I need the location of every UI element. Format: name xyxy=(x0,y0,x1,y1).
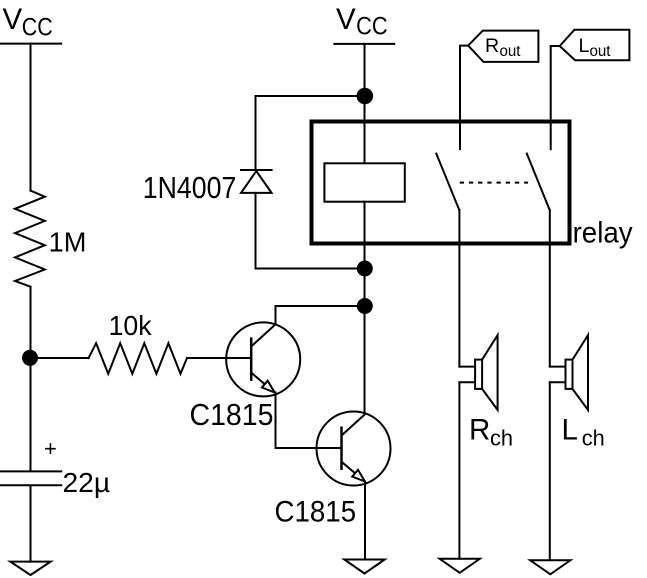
relay K1 coil rectangle xyxy=(324,163,404,201)
svg-text:relay: relay xyxy=(573,217,633,250)
resistor R2 zigzag 10k xyxy=(89,343,187,374)
relay switch S2 blade xyxy=(527,154,550,210)
node A1 junction dot (base divider node) xyxy=(22,350,38,366)
ground (under Q2) xyxy=(344,560,384,574)
transistor Q2 base bar xyxy=(340,428,343,469)
relay switch linkage dashed line xyxy=(460,182,528,184)
input tag Rout outline xyxy=(468,31,538,62)
wire relay coil bottom to Q2 collector xyxy=(364,202,366,414)
wire Q1 emitter down and right to Q2 base xyxy=(276,392,341,448)
svg-text:10k: 10k xyxy=(109,309,153,341)
speaker Rch top stub xyxy=(459,366,475,368)
wire Q2 emitter to ground xyxy=(364,482,366,560)
svg-text:out: out xyxy=(500,43,522,60)
power VCC (left) rail bar xyxy=(1,43,61,45)
wire speaker Lch to ground xyxy=(549,382,551,560)
svg-text:1M: 1M xyxy=(49,226,87,258)
transistor Q2 collector diagonal xyxy=(342,414,365,435)
node B3 junction dot (collector tie) xyxy=(357,298,373,314)
transistor Q1 circle xyxy=(226,322,300,396)
input tag Rout text xyxy=(485,35,521,60)
power VCC (middle) label xyxy=(336,3,388,41)
svg-text:R: R xyxy=(485,35,499,57)
capacitor C1 bottom plate xyxy=(1,484,62,486)
input tag Lout outline xyxy=(560,30,630,60)
resistor R1 zigzag xyxy=(15,191,45,287)
relay K1 outer box xyxy=(312,122,570,244)
wire Lout tag to switch xyxy=(551,46,560,149)
transistor Q2 emitter diagonal xyxy=(342,462,359,477)
transistor Q1 emitter arrowhead xyxy=(262,381,275,393)
speaker Lch top stub xyxy=(550,366,566,368)
capacitor C1 polarity plus sign xyxy=(44,436,57,461)
wire VCC-left to R1 xyxy=(30,44,32,191)
ground (under Rch) xyxy=(440,559,480,573)
wire switch S1 to speaker Rch xyxy=(458,210,460,367)
transistor Q2 emitter arrowhead xyxy=(352,470,365,482)
ground (under Lch) xyxy=(530,560,570,574)
diode D1 triangle xyxy=(241,171,272,193)
power VCC (left) label xyxy=(3,3,53,42)
svg-text:L: L xyxy=(562,414,578,447)
capacitor C1 top plate xyxy=(1,470,62,472)
svg-text:+: + xyxy=(44,436,57,461)
svg-text:CC: CC xyxy=(356,13,388,41)
label Lch xyxy=(562,414,605,451)
wire node A1 to resistor R2 xyxy=(31,357,89,359)
speaker Rch horn xyxy=(482,335,498,410)
transistor Q1 emitter diagonal xyxy=(252,373,269,388)
transistor Q2 circle xyxy=(317,412,391,486)
wire speaker Rch to ground xyxy=(458,382,460,559)
node B1 junction dot (VCC / diode branch) xyxy=(357,88,374,105)
svg-text:C1815: C1815 xyxy=(275,496,357,529)
input tag Lout text xyxy=(579,35,612,60)
label Rch xyxy=(469,414,513,451)
speaker Rch driver rect xyxy=(475,360,482,389)
wire C1 to ground xyxy=(30,486,32,562)
svg-text:V: V xyxy=(336,3,356,36)
svg-text:CC: CC xyxy=(22,13,53,41)
node B2 junction dot (coil- / diode anode) xyxy=(357,261,373,277)
power VCC (middle) rail bar xyxy=(334,43,394,45)
svg-text:1N4007: 1N4007 xyxy=(143,170,237,205)
svg-text:ch: ch xyxy=(490,426,513,451)
speaker Lch horn xyxy=(573,335,589,410)
transistor Q1 base bar xyxy=(250,339,253,380)
speaker Lch driver rect xyxy=(566,360,573,389)
relay switch S1 blade xyxy=(436,154,459,210)
svg-text:C1815: C1815 xyxy=(190,397,274,432)
wire VCC-middle down to relay coil xyxy=(364,44,366,163)
svg-text:R: R xyxy=(469,414,490,447)
wire node B1 to diode D1 cathode xyxy=(256,96,365,170)
svg-text:ch: ch xyxy=(582,426,605,451)
wire R1 to node A1 and to C1 xyxy=(30,287,32,471)
transistor Q1 collector diagonal xyxy=(252,324,275,345)
wire diode D1 anode down and right to node B2 xyxy=(256,193,365,269)
diode D1 cathode bar xyxy=(241,169,272,171)
wire Rout tag to switch xyxy=(460,46,468,150)
svg-text:V: V xyxy=(3,3,23,36)
wire node B3 to Q1 collector xyxy=(276,306,365,324)
wire R2 to Q1 base xyxy=(187,357,250,359)
svg-text:22µ: 22µ xyxy=(63,466,111,498)
svg-text:L: L xyxy=(579,35,590,57)
wire switch S2 to speaker Lch xyxy=(549,210,551,367)
speaker Rch bottom stub xyxy=(459,381,475,383)
ground (left, under C1) xyxy=(10,562,50,575)
svg-text:out: out xyxy=(590,43,612,60)
speaker Lch bottom stub xyxy=(550,381,566,383)
